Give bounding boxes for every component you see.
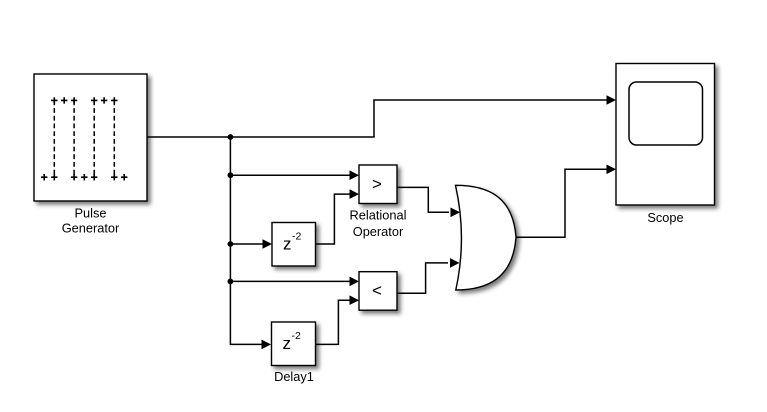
plus markers bottom row (41, 174, 127, 180)
svg-text:Scope: Scope (647, 210, 683, 225)
wire W1: Pulse Generator output to Scope input 1 (147, 100, 607, 137)
plus markers top row (51, 97, 117, 103)
junction node J1 (228, 134, 234, 140)
wire W2: trunk from junction down to Delay1 input (230, 137, 262, 344)
svg-text:Pulse: Pulse (74, 205, 106, 220)
block: Delay (z^-2) (272, 223, 316, 267)
stem 3 (93, 100, 95, 177)
svg-text:-2: -2 (292, 330, 301, 342)
arrowhead into Delay1 port (262, 340, 272, 350)
arrowhead into OR gate port 2 (450, 258, 460, 268)
wire W10: OR gate output to Scope input 2 (514, 169, 607, 237)
arrowhead into Relational Operator port 2 (350, 189, 360, 199)
block: Pulse Generator (34, 74, 147, 201)
arrowhead into Scope port 2 (607, 165, 617, 175)
arrowhead into Scope port 1 (607, 95, 617, 105)
wire W8: Relational Operator output to OR gate input 1 (397, 187, 449, 212)
block: Relational Operator (>) (359, 165, 397, 204)
wire W6: trunk to Less-Than operator input 1 (230, 280, 350, 282)
block: Less-Than Relational Operator (<) (359, 272, 397, 311)
block: Logical OR gate (456, 185, 517, 290)
svg-text:Delay1: Delay1 (274, 369, 314, 384)
junction node J4 (228, 279, 234, 285)
junction node J3 (228, 241, 234, 247)
svg-text:Relational: Relational (350, 208, 407, 223)
stem 1 (53, 100, 55, 177)
svg-text:>: > (372, 174, 382, 193)
stem 2 (73, 100, 75, 177)
wire W9: Less-Than operator output to OR gate input 2 (397, 263, 448, 293)
arrowhead into Less-Than port 2 (350, 295, 360, 305)
wire W4: trunk to Delay input (230, 243, 263, 245)
svg-text:<: < (372, 281, 382, 300)
junction node J2 (228, 172, 234, 178)
Scope screen (629, 82, 703, 145)
wire W7: Delay1 output to Less-Than operator input 2 (316, 300, 351, 344)
wire W3: trunk to Relational Operator input 1 (230, 174, 350, 176)
svg-text:Generator: Generator (62, 221, 120, 236)
arrowhead into Less-Than port 1 (350, 277, 360, 287)
block: Delay1 (z^-2) (272, 322, 316, 366)
arrowhead into OR gate port 1 (451, 208, 461, 218)
Pulse Generator icon: dashed square-wave with plus markers (54, 100, 114, 177)
arrowhead into Delay port (263, 239, 273, 249)
wire W5: Delay output to Relational Operator input 2 (316, 194, 351, 244)
stem 4 (113, 100, 115, 177)
svg-text:Operator: Operator (353, 224, 404, 239)
arrowhead into Relational Operator port 1 (350, 170, 360, 180)
svg-text:z: z (283, 234, 292, 253)
svg-text:-2: -2 (292, 231, 301, 243)
svg-text:z: z (283, 334, 292, 353)
block: Scope (616, 64, 715, 206)
